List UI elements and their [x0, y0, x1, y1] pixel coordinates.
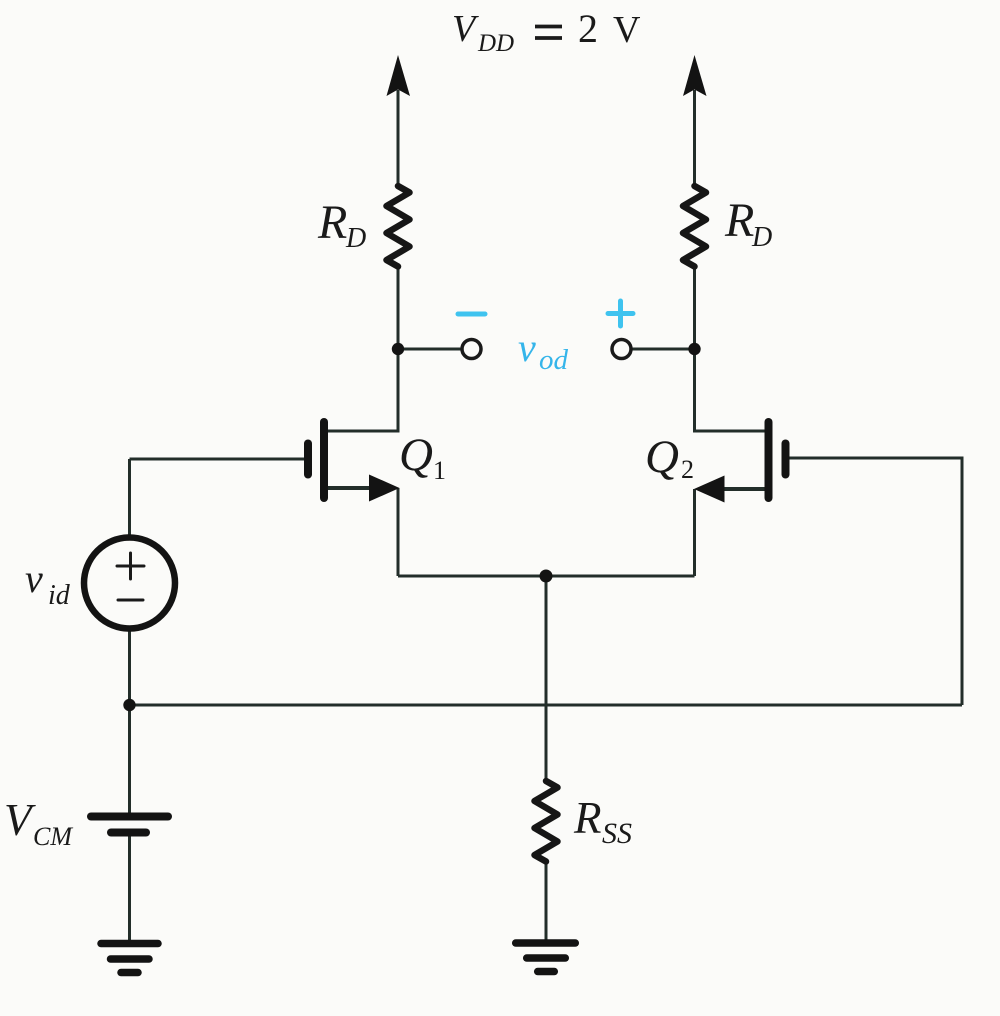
svg-text:od: od — [539, 344, 569, 376]
svg-text:R: R — [317, 196, 347, 249]
svg-text:Q: Q — [645, 431, 679, 483]
svg-text:V: V — [4, 795, 36, 845]
svg-text:CM: CM — [33, 822, 73, 851]
svg-text:V: V — [452, 8, 479, 50]
svg-text:V: V — [613, 9, 641, 51]
svg-text:D: D — [345, 223, 366, 254]
svg-text:DD: DD — [477, 30, 514, 57]
svg-text:SS: SS — [602, 817, 632, 850]
svg-text:D: D — [751, 222, 772, 253]
svg-text:id: id — [48, 580, 71, 611]
svg-text:R: R — [724, 194, 754, 247]
svg-text:Q: Q — [399, 429, 433, 481]
svg-text:v: v — [518, 325, 536, 370]
svg-text:2: 2 — [681, 455, 694, 484]
svg-text:2: 2 — [578, 6, 598, 51]
svg-text:1: 1 — [433, 456, 446, 485]
svg-text:R: R — [573, 793, 602, 843]
svg-text:v: v — [25, 556, 43, 601]
